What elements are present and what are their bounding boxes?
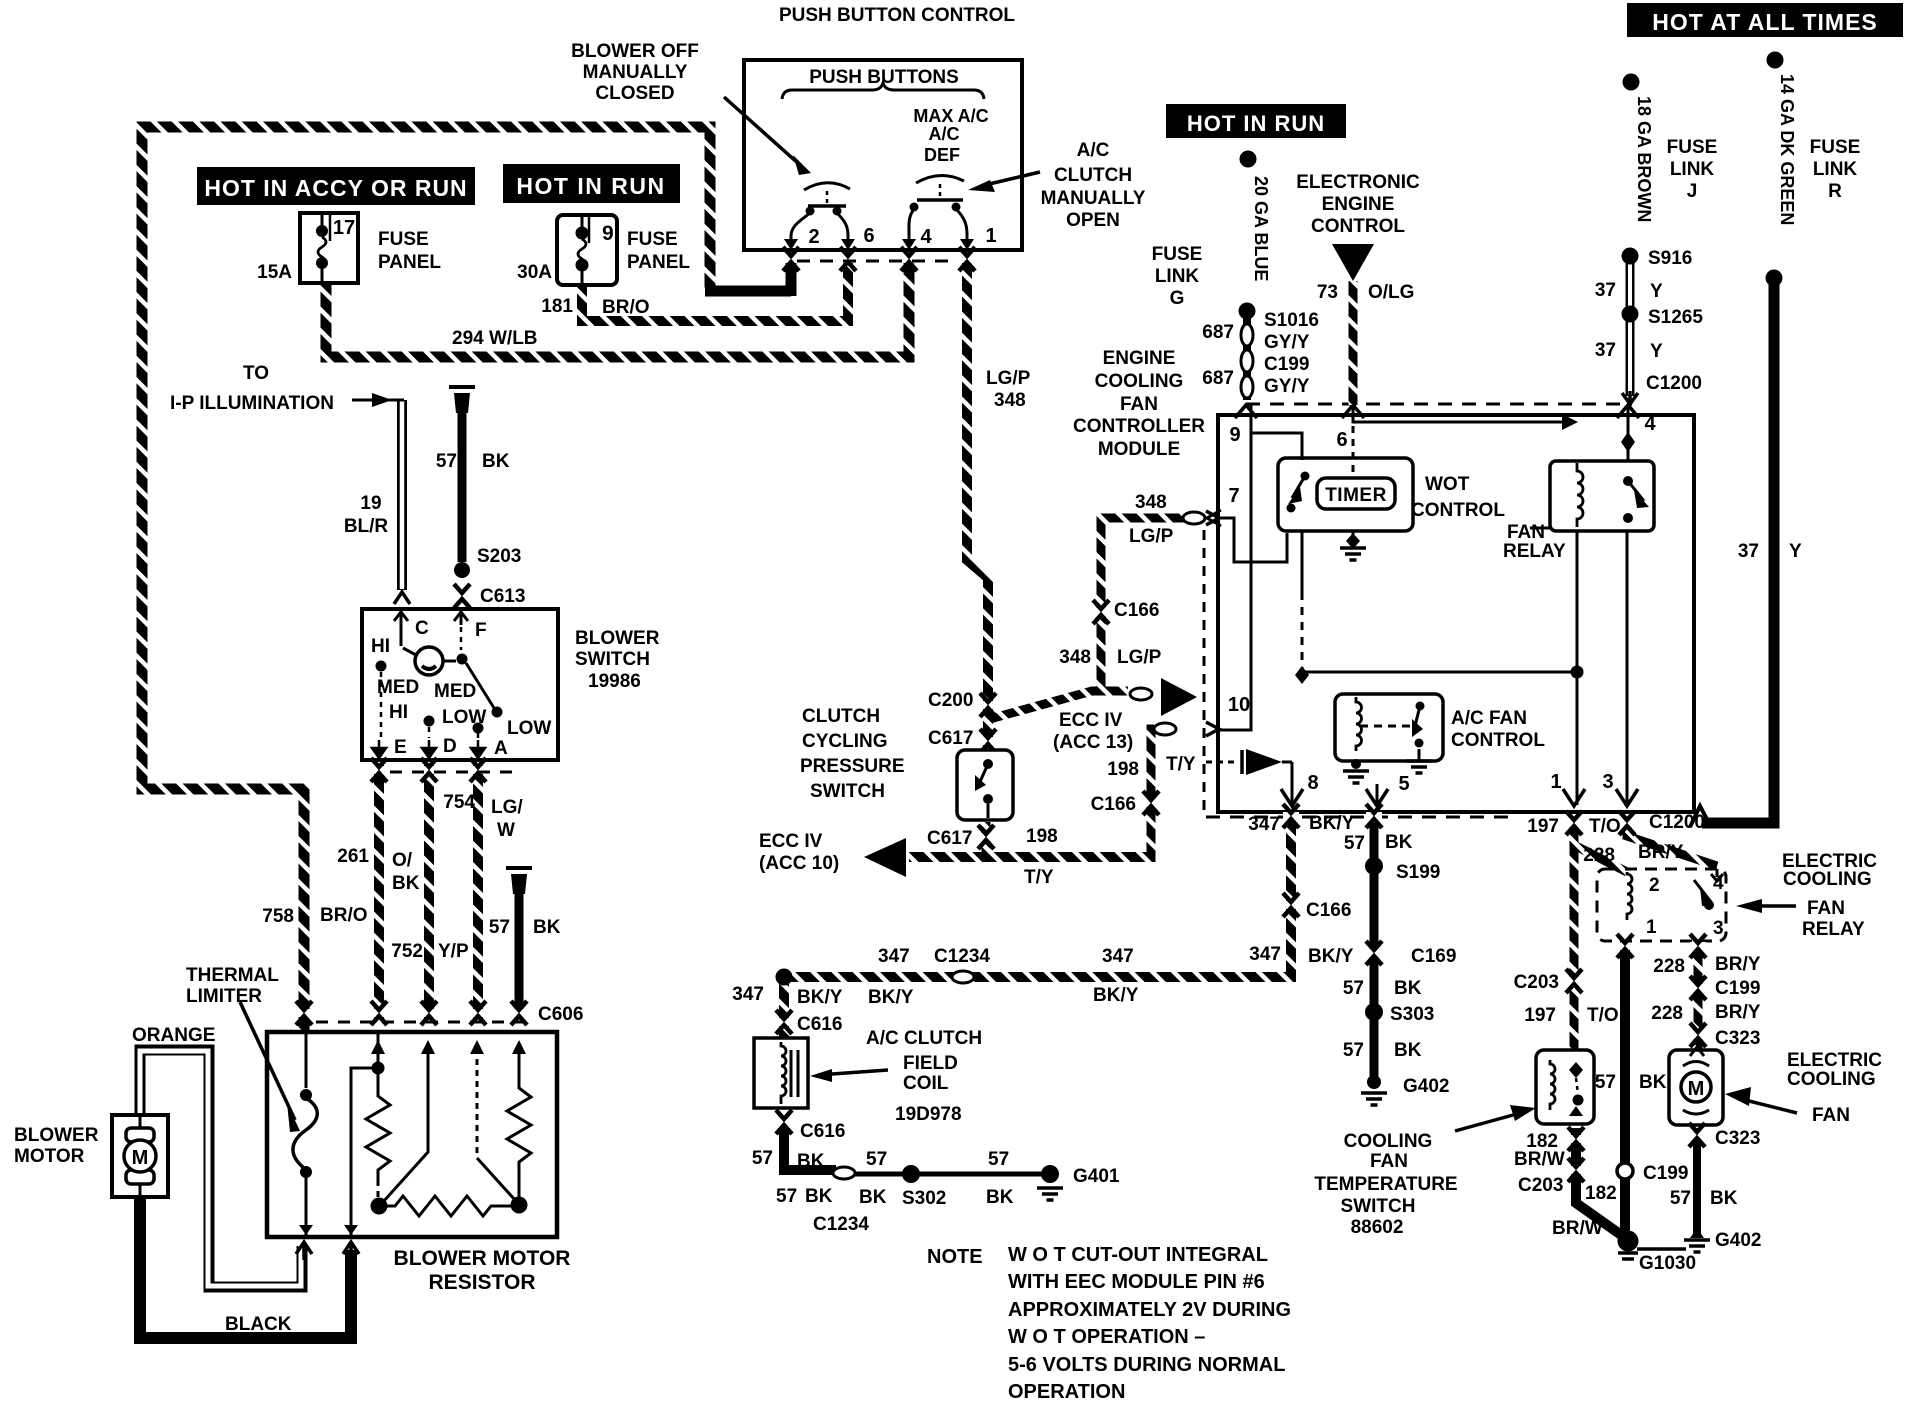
svg-text:C613: C613 <box>480 586 525 607</box>
svg-text:MED: MED <box>434 681 476 702</box>
svg-text:BK: BK <box>1639 1072 1667 1093</box>
svg-text:C199: C199 <box>1264 354 1309 375</box>
svg-text:C166: C166 <box>1306 900 1351 921</box>
svg-text:57: 57 <box>1595 1072 1616 1093</box>
svg-text:CONTROL: CONTROL <box>1451 730 1545 751</box>
svg-text:57: 57 <box>776 1186 797 1207</box>
svg-text:J: J <box>1687 181 1698 202</box>
TIMER box U-timer <box>1317 478 1395 509</box>
svg-text:R: R <box>1828 181 1842 202</box>
svg-text:197: 197 <box>1527 816 1559 837</box>
svg-text:GY/Y: GY/Y <box>1264 332 1310 353</box>
WOT ground <box>1352 531 1355 546</box>
svg-text:PUSH BUTTONS: PUSH BUTTONS <box>809 67 959 88</box>
svg-text:TO: TO <box>243 363 269 384</box>
wire 228 BR/Y pin 1 branch to relay pin 2 <box>1574 845 1627 872</box>
connector below pin 5 <box>1366 804 1382 828</box>
splice dot 347 <box>776 969 793 986</box>
wire 73 O/LG <box>1349 281 1358 405</box>
svg-text:C616: C616 <box>797 1014 842 1035</box>
pin F arrow <box>454 609 468 625</box>
wire 198 T/Y horizontal ECC IV (ACC 10) <box>909 852 1151 862</box>
svg-text:FAN: FAN <box>1370 1151 1408 1172</box>
connector C166 on riser <box>1143 791 1159 815</box>
svg-text:BK: BK <box>533 917 561 938</box>
svg-text:ELECTRIC: ELECTRIC <box>1787 1050 1882 1071</box>
svg-text:228: 228 <box>1651 1003 1683 1024</box>
splice S916 <box>1622 248 1639 265</box>
svg-text:BLACK: BLACK <box>225 1314 292 1335</box>
svg-text:GY/Y: GY/Y <box>1264 376 1310 397</box>
C1234 connector ovals <box>833 1167 855 1179</box>
svg-text:15A: 15A <box>257 262 292 283</box>
svg-text:C1200: C1200 <box>1649 812 1705 833</box>
connector below fan <box>1689 1123 1705 1147</box>
svg-text:C166: C166 <box>1114 600 1159 621</box>
svg-text:COOLING: COOLING <box>1344 1131 1433 1152</box>
svg-text:57: 57 <box>436 451 457 472</box>
svg-text:C166: C166 <box>1091 794 1136 815</box>
wire to push button pin 2 (solid) <box>705 260 791 296</box>
svg-text:BK: BK <box>1385 832 1413 853</box>
svg-text:MOTOR: MOTOR <box>14 1146 85 1167</box>
connector prongs at BL/R bottom <box>394 592 410 604</box>
svg-text:T/Y: T/Y <box>1024 867 1054 888</box>
oval connector on ACC13 wire <box>1130 688 1152 700</box>
arrow to I-P illumination <box>352 399 404 402</box>
svg-text:C203: C203 <box>1518 1175 1563 1196</box>
pin 10 internal wire <box>1218 433 1251 730</box>
svg-text:BK/Y: BK/Y <box>1308 946 1354 967</box>
svg-text:C617: C617 <box>928 728 973 749</box>
svg-text:294 W/LB: 294 W/LB <box>452 328 538 349</box>
svg-text:A: A <box>494 738 508 759</box>
svg-text:1: 1 <box>1646 917 1657 938</box>
wire 182 BR/W temp switch to G1030 <box>1576 1128 1624 1237</box>
svg-text:MODULE: MODULE <box>1098 439 1180 460</box>
svg-text:TEMPERATURE: TEMPERATURE <box>1314 1174 1457 1195</box>
connector C616 top <box>776 1010 792 1034</box>
engine cooling fan controller module box <box>1218 415 1694 812</box>
banner HOT IN RUN (left) <box>503 164 680 203</box>
svg-text:CONTROLLER: CONTROLLER <box>1073 416 1205 437</box>
svg-text:57: 57 <box>1344 833 1365 854</box>
svg-text:3: 3 <box>1713 918 1724 939</box>
svg-text:S1016: S1016 <box>1264 310 1319 331</box>
fan relay coil <box>1577 463 1583 527</box>
svg-text:10: 10 <box>1228 694 1250 716</box>
svg-text:BK: BK <box>1394 1040 1422 1061</box>
svg-text:LG/P: LG/P <box>1117 647 1162 668</box>
banner HOT IN RUN (right) <box>1166 104 1346 138</box>
svg-text:BK: BK <box>482 451 510 472</box>
svg-text:MED: MED <box>377 677 419 698</box>
fan relay box <box>1550 461 1654 531</box>
svg-text:347: 347 <box>732 984 764 1005</box>
bottom zigzag <box>387 1196 512 1216</box>
svg-text:C606: C606 <box>538 1004 583 1025</box>
dashed line below push buttons <box>797 260 953 263</box>
C1234 oval on 347 wire <box>952 971 974 983</box>
svg-text:S203: S203 <box>477 546 521 567</box>
svg-text:2: 2 <box>808 226 819 248</box>
wire 228 BR/Y relay pin 3 to cooling fan <box>1694 944 1703 1052</box>
connector below pin 1 <box>1566 811 1582 835</box>
svg-text:2: 2 <box>1649 875 1660 896</box>
wire 758 BR/O left border feed <box>142 127 710 1030</box>
G402 ground <box>1367 1075 1381 1089</box>
connectors C606 <box>296 1001 312 1025</box>
svg-text:C200: C200 <box>928 690 973 711</box>
svg-text:PANEL: PANEL <box>627 252 690 273</box>
connector C166 on pin 8 wire <box>1283 893 1299 917</box>
dot 14 GA DK GREEN top <box>1767 52 1784 69</box>
svg-text:C: C <box>415 618 429 639</box>
thermal limiter element <box>305 1032 308 1088</box>
svg-text:37: 37 <box>1595 280 1616 301</box>
banner HOT AT ALL TIMES <box>1627 3 1903 37</box>
dot 18 GA BROWN <box>1623 74 1640 91</box>
svg-text:ENGINE: ENGINE <box>1103 348 1176 369</box>
pin 9 internal wire <box>1251 405 1302 460</box>
pin 7 internal wire <box>1218 518 1287 562</box>
connector C617 bottom <box>978 825 994 849</box>
wire pressure switch to 198 T/Y <box>982 822 991 857</box>
ground above 57 BK (blower switch) <box>449 385 475 413</box>
svg-text:5-6 VOLTS DURING NORMAL: 5-6 VOLTS DURING NORMAL <box>1008 1354 1285 1376</box>
pin 4 internal wire <box>1627 405 1630 461</box>
svg-text:MANUALLY: MANUALLY <box>1041 188 1146 209</box>
svg-text:PUSH BUTTON CONTROL: PUSH BUTTON CONTROL <box>779 5 1015 26</box>
svg-text:T/O: T/O <box>1589 816 1621 837</box>
svg-text:LOW: LOW <box>507 718 551 739</box>
splice S1016 <box>1239 303 1256 320</box>
svg-text:ECC IV: ECC IV <box>759 831 823 852</box>
svg-text:LG/: LG/ <box>491 797 523 818</box>
banner HOT IN ACCY OR RUN <box>197 167 475 205</box>
svg-text:THERMAL: THERMAL <box>186 965 279 986</box>
svg-text:7: 7 <box>1228 485 1239 507</box>
temp switch box <box>1536 1050 1594 1124</box>
blower switch wire A (754 LG/W) <box>473 764 483 1018</box>
svg-text:228: 228 <box>1583 845 1615 866</box>
connector below relay pin3 <box>1690 934 1706 958</box>
splice G401 <box>1041 1165 1059 1183</box>
dot 20 GA BLUE <box>1240 151 1257 168</box>
svg-text:57: 57 <box>866 1149 887 1170</box>
svg-text:181: 181 <box>541 296 573 317</box>
blower motor resistor box <box>267 1032 557 1237</box>
svg-text:LG/P: LG/P <box>1129 526 1174 547</box>
splice S302 <box>902 1165 920 1183</box>
svg-text:BK: BK <box>805 1186 833 1207</box>
svg-text:9: 9 <box>1229 424 1240 446</box>
svg-text:BK: BK <box>1394 978 1422 999</box>
field coil pointer <box>818 1070 888 1075</box>
svg-text:57: 57 <box>1670 1188 1691 1209</box>
svg-text:C199: C199 <box>1715 978 1760 999</box>
svg-text:4: 4 <box>1713 873 1724 894</box>
svg-text:Y: Y <box>1789 541 1802 562</box>
svg-text:CONTROL: CONTROL <box>1311 216 1405 237</box>
svg-text:752: 752 <box>391 941 423 962</box>
module pin arrows top <box>1235 405 1257 418</box>
svg-text:SWITCH: SWITCH <box>1341 1196 1416 1217</box>
fuse link G wire <box>1243 318 1251 400</box>
fan pointer <box>1737 1098 1797 1113</box>
switch rotor <box>400 625 403 646</box>
svg-text:228: 228 <box>1653 956 1685 977</box>
connector below relay pin1 <box>1617 934 1633 958</box>
svg-text:BK: BK <box>797 1151 825 1172</box>
splice S203 <box>454 562 470 578</box>
svg-text:37: 37 <box>1595 340 1616 361</box>
splice G1030 <box>1618 1231 1639 1252</box>
svg-text:BLOWER MOTOR: BLOWER MOTOR <box>394 1247 571 1270</box>
svg-text:4: 4 <box>920 226 932 248</box>
svg-text:261: 261 <box>337 846 369 867</box>
blower switch wire E (261 O/BK) <box>374 764 384 1018</box>
svg-text:CYCLING: CYCLING <box>802 731 888 752</box>
svg-text:BK/Y: BK/Y <box>1309 813 1355 834</box>
svg-text:C203: C203 <box>1514 972 1559 993</box>
pointer A/C clutch manually open <box>985 172 1040 185</box>
svg-text:PANEL: PANEL <box>378 252 441 273</box>
A/C clutch switch <box>916 175 964 183</box>
svg-text:FAN: FAN <box>1507 522 1545 543</box>
thermal limiter pointer line <box>240 1002 295 1120</box>
svg-text:S303: S303 <box>1390 1004 1434 1025</box>
wire 181 BR/O fuse 9 to pin 6 <box>582 262 848 321</box>
svg-text:A/C: A/C <box>1077 140 1110 161</box>
connectors below blower switch <box>371 758 387 782</box>
svg-text:HI: HI <box>371 636 390 657</box>
WOT switch <box>1301 472 1310 481</box>
wire 14 GA DK GREEN fuse link R <box>1702 284 1774 823</box>
svg-text:HI: HI <box>389 702 408 723</box>
svg-text:BL/R: BL/R <box>344 516 389 537</box>
svg-text:347: 347 <box>1249 944 1281 965</box>
connector C169 <box>1366 941 1382 965</box>
svg-text:347: 347 <box>1248 814 1280 835</box>
svg-text:(ACC 10): (ACC 10) <box>759 853 839 874</box>
svg-text:C323: C323 <box>1715 1028 1760 1049</box>
svg-text:17: 17 <box>333 217 355 239</box>
svg-text:S199: S199 <box>1396 862 1440 883</box>
relay dashed box <box>1597 869 1726 941</box>
blower motor box <box>112 1115 168 1197</box>
wire 347 BK/Y module pin 8 down and across <box>784 821 1291 977</box>
dashed line below blower switch <box>390 771 516 774</box>
svg-text:ENGINE: ENGINE <box>1322 194 1395 215</box>
svg-text:348: 348 <box>1059 647 1091 668</box>
svg-text:FUSE: FUSE <box>378 229 429 250</box>
svg-text:14 GA DK GREEN: 14 GA DK GREEN <box>1777 74 1797 225</box>
svg-text:6: 6 <box>1336 429 1347 451</box>
dot 14 GA DK GREEN lower <box>1766 270 1783 287</box>
wire 197 T/O module pin 1 down to temp switch <box>1570 819 1579 1050</box>
module pin arrows bottom <box>1281 789 1303 806</box>
svg-text:S916: S916 <box>1648 248 1692 269</box>
svg-text:G: G <box>1170 288 1185 309</box>
svg-text:TIMER: TIMER <box>1325 485 1387 506</box>
svg-text:OPEN: OPEN <box>1066 210 1120 231</box>
svg-text:687: 687 <box>1202 368 1234 389</box>
svg-text:COOLING: COOLING <box>1787 1069 1876 1090</box>
svg-text:FUSE: FUSE <box>1810 137 1861 158</box>
connector C613 <box>454 584 470 608</box>
arrowhead into module corner <box>1690 806 1711 827</box>
svg-text:88602: 88602 <box>1351 1217 1404 1238</box>
svg-text:LIMITER: LIMITER <box>186 986 262 1007</box>
A/C fan control feed wire <box>1302 672 1577 676</box>
svg-text:57: 57 <box>1343 978 1364 999</box>
wire 348 LG/P branch to ECC IV (ACC 13) <box>986 691 1128 720</box>
electronic engine control triangle <box>1332 244 1374 281</box>
svg-text:C1234: C1234 <box>934 946 990 967</box>
C323 connector on BR/Y <box>1690 1023 1706 1047</box>
connector C1200 <box>1622 391 1638 406</box>
oval connector on pin10 wire <box>1154 723 1176 735</box>
svg-text:5: 5 <box>1398 773 1409 795</box>
svg-text:RESISTOR: RESISTOR <box>429 1271 536 1294</box>
ground above 57 BK (C606) <box>506 866 532 894</box>
C199 round connector on 57BK wire <box>1617 1163 1633 1179</box>
splice S1265 <box>1622 306 1639 323</box>
resistor zigzag 1 <box>366 1074 390 1180</box>
svg-text:CLUTCH: CLUTCH <box>1054 165 1132 186</box>
pressure switch box <box>957 750 1013 820</box>
svg-text:APPROXIMATELY 2V DURING: APPROXIMATELY 2V DURING <box>1008 1299 1291 1321</box>
element 2 wire <box>377 1032 380 1062</box>
svg-text:18 GA BROWN: 18 GA BROWN <box>1634 96 1654 222</box>
svg-text:SWITCH: SWITCH <box>575 649 650 670</box>
svg-text:754: 754 <box>443 792 475 813</box>
connector below temp switch <box>1568 1127 1584 1151</box>
wire 37 Y fuse link J segments <box>1626 262 1635 396</box>
connectors below resistor <box>296 1242 312 1260</box>
svg-text:BK/Y: BK/Y <box>797 987 843 1008</box>
svg-text:37: 37 <box>1738 541 1759 562</box>
wire 19 BL/R to I-P illumination <box>397 400 407 590</box>
svg-text:BR/O: BR/O <box>320 905 368 926</box>
pointer blower off manually closed <box>724 97 800 165</box>
svg-text:A/C CLUTCH: A/C CLUTCH <box>866 1028 982 1049</box>
svg-text:57: 57 <box>988 1149 1009 1170</box>
svg-text:G1030: G1030 <box>1639 1253 1696 1274</box>
wire 347 BK/Y down to A/C clutch field coil <box>779 972 789 1038</box>
push buttons brace <box>782 83 984 99</box>
svg-text:Y: Y <box>1650 341 1663 362</box>
connector C616 bottom <box>776 1110 792 1134</box>
svg-text:BK: BK <box>986 1187 1014 1208</box>
svg-text:C1200: C1200 <box>1646 373 1702 394</box>
svg-text:BR/Y: BR/Y <box>1638 842 1684 863</box>
pins E D A arrows <box>372 740 386 758</box>
pin 9 arrow below fuse link G <box>1235 405 1257 418</box>
blower switch box <box>362 609 558 760</box>
relay pointer <box>1748 904 1796 908</box>
diode to pin 8 <box>1206 761 1238 764</box>
svg-text:LOW: LOW <box>442 707 486 728</box>
svg-text:RELAY: RELAY <box>1802 919 1865 940</box>
wire 198 T/Y riser to module pin 10 <box>1151 729 1154 862</box>
ECC IV (ACC 13) arrow <box>1161 678 1197 716</box>
svg-text:C323: C323 <box>1715 1128 1760 1149</box>
pin 6 internal wire with arrow <box>1353 405 1562 422</box>
LOW contact dots <box>424 716 435 727</box>
svg-text:G402: G402 <box>1403 1076 1449 1097</box>
splice S199 <box>1365 857 1383 875</box>
connector below pin 8 <box>1283 804 1299 828</box>
svg-text:8: 8 <box>1307 772 1318 794</box>
svg-text:348: 348 <box>1135 492 1167 513</box>
svg-text:FAN: FAN <box>1120 394 1158 415</box>
svg-text:W O T CUT-OUT INTEGRAL: W O T CUT-OUT INTEGRAL <box>1008 1244 1268 1266</box>
fan relay switch <box>1623 476 1633 486</box>
svg-text:HOT IN RUN: HOT IN RUN <box>1187 111 1325 136</box>
svg-text:BR/W: BR/W <box>1514 1149 1565 1170</box>
svg-text:20 GA BLUE: 20 GA BLUE <box>1251 176 1271 281</box>
dashed connector line at module top <box>1246 403 1630 406</box>
connector C203 <box>1566 969 1582 993</box>
svg-text:6: 6 <box>863 225 874 247</box>
svg-text:F: F <box>475 620 487 641</box>
svg-text:57: 57 <box>489 917 510 938</box>
svg-text:BK: BK <box>859 1187 887 1208</box>
svg-text:FUSE: FUSE <box>1667 137 1718 158</box>
svg-text:OPERATION: OPERATION <box>1008 1381 1125 1403</box>
svg-text:182: 182 <box>1585 1183 1617 1204</box>
svg-text:W: W <box>497 820 515 841</box>
svg-text:E: E <box>394 737 407 758</box>
svg-text:NOTE: NOTE <box>927 1246 983 1268</box>
svg-text:FAN: FAN <box>1807 898 1845 919</box>
svg-text:T/Y: T/Y <box>1166 754 1196 775</box>
svg-text:M: M <box>1688 1078 1705 1100</box>
G402 ground right <box>1690 1228 1704 1238</box>
A/C fan control box <box>1335 694 1443 761</box>
svg-text:C169: C169 <box>1411 946 1456 967</box>
svg-text:HOT IN ACCY OR RUN: HOT IN ACCY OR RUN <box>204 175 467 201</box>
svg-text:LINK: LINK <box>1670 159 1715 180</box>
svg-text:LINK: LINK <box>1155 266 1200 287</box>
svg-text:1: 1 <box>985 225 996 247</box>
svg-text:COOLING: COOLING <box>1783 869 1872 890</box>
pin D element <box>383 1048 428 1202</box>
svg-text:BR/O: BR/O <box>602 297 650 318</box>
svg-text:3: 3 <box>1602 771 1613 793</box>
push button control box <box>744 60 1022 250</box>
wire 57 BK fan to G402 <box>1693 1128 1701 1234</box>
svg-text:MANUALLY: MANUALLY <box>583 62 688 83</box>
svg-text:Y: Y <box>1650 281 1663 302</box>
wire 57 BK module pin 5 to G402 <box>1370 823 1379 1080</box>
svg-text:MAX A/C: MAX A/C <box>913 106 988 126</box>
svg-text:19: 19 <box>360 493 381 514</box>
svg-text:C1234: C1234 <box>813 1214 869 1235</box>
svg-text:RELAY: RELAY <box>1503 541 1566 562</box>
svg-text:CONTROL: CONTROL <box>1411 500 1505 521</box>
svg-text:I-P ILLUMINATION: I-P ILLUMINATION <box>170 393 334 414</box>
connectors below push button box <box>783 247 799 271</box>
svg-text:BR/Y: BR/Y <box>1715 954 1761 975</box>
svg-text:ORANGE: ORANGE <box>132 1025 215 1046</box>
blower off switch <box>804 183 850 190</box>
wire 294 W/LB fuse 17 to pin 4 <box>326 262 909 357</box>
dashed vertical outside module left <box>1203 530 1206 812</box>
fan motor box <box>1669 1050 1723 1125</box>
